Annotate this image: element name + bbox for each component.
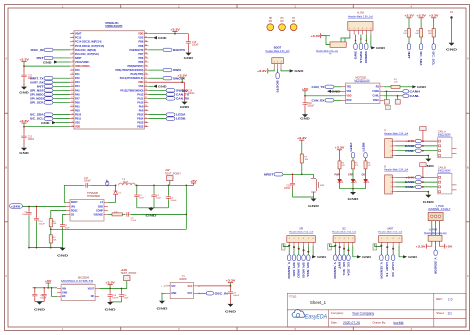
svg-text:SPI_SCK: SPI_SCK — [292, 262, 295, 277]
net flag UART_RX (UART) — [391, 246, 395, 277]
diode D1 — [108, 184, 122, 202]
ground (C9) — [225, 304, 237, 314]
net flag I2C_SDA — [419, 37, 423, 66]
svg-text:PC15-OSC32_OUT(PC15): PC15-OSC32_OUT(PC15) — [75, 45, 104, 48]
header SPI Header-Male 2.54_1x6 — [287, 227, 316, 246]
svg-text:43: 43 — [145, 53, 147, 55]
svg-text:GND: GND — [57, 253, 69, 257]
svg-text:3: 3 — [298, 238, 299, 240]
svg-text:GND: GND — [105, 308, 117, 312]
svg-text:18: 18 — [71, 101, 73, 103]
IC U2 STM32L451C8T6 — [70, 22, 148, 129]
LED D3 — [351, 169, 357, 189]
svg-text:TEST_POINT: TEST_POINT — [165, 173, 182, 175]
svg-text:GND: GND — [184, 56, 195, 60]
svg-text:VIN: VIN — [62, 288, 66, 290]
svg-text:270: 270 — [368, 165, 371, 167]
svg-text:CAN_B: CAN_B — [438, 167, 446, 170]
svg-text:VSENSE: VSENSE — [94, 214, 104, 216]
svg-text:V_SENSOR: V_SENSOR — [434, 258, 438, 275]
svg-text:100nF: 100nF — [84, 181, 91, 183]
ground (VSSA) — [43, 60, 70, 64]
svg-text:10uF: 10uF — [124, 298, 130, 300]
net flag OSC_IN (Y1 out) — [197, 291, 227, 295]
svg-text:C: C — [467, 274, 469, 278]
svg-text:10uF: 10uF — [65, 227, 71, 229]
svg-text:2: 2 — [354, 28, 355, 30]
svg-text:PB6: PB6 — [139, 57, 144, 60]
resistor R6 (split termination) — [395, 96, 400, 104]
junction (H_SW pins) — [355, 40, 356, 41]
svg-text:GND: GND — [423, 200, 435, 204]
svg-text:10uF: 10uF — [22, 214, 28, 216]
svg-text:37: 37 — [145, 77, 147, 79]
net flag SWCLK (H_SW) — [359, 35, 363, 64]
svg-text:+3.3V: +3.3V — [416, 14, 426, 18]
svg-text:1: 1 — [391, 192, 392, 194]
power +5V (rail) — [190, 179, 197, 185]
svg-text:RXD: RXD — [347, 100, 352, 102]
svg-text:GND: GND — [408, 255, 418, 259]
oscillator Y1 20MHz — [161, 276, 199, 299]
svg-text:1: 1 — [161, 286, 162, 288]
svg-text:23: 23 — [71, 121, 73, 123]
svg-text:NC: NC — [91, 296, 95, 298]
power +3.3V (VDD pin48) — [148, 27, 188, 34]
svg-text:100nF: 100nF — [112, 298, 119, 300]
svg-text:38: 38 — [145, 73, 147, 75]
svg-text:A: A — [467, 57, 469, 61]
svg-text:1: 1 — [274, 62, 275, 64]
svg-text:+3.3V: +3.3V — [416, 244, 426, 248]
net flag INT — [407, 37, 411, 59]
net flag LEDB (vertical) — [362, 142, 368, 161]
capacitor C8 10uF — [119, 289, 129, 302]
net flag UART_TX — [30, 76, 70, 80]
svg-text:CANL: CANL — [373, 95, 380, 98]
svg-text:4: 4 — [399, 238, 400, 240]
net flag CAN_RX — [312, 99, 342, 103]
svg-text:INT: INT — [407, 52, 411, 60]
svg-text:30: 30 — [145, 105, 147, 107]
ground (SPI) — [312, 246, 327, 259]
capacitor C4 2.2nF — [126, 212, 187, 222]
IC U1 TPS5405 — [66, 192, 108, 221]
connector pin1 post (I2C) — [328, 244, 332, 250]
svg-text:SWDIO: SWDIO — [364, 51, 368, 63]
net flag INT (I2C) — [338, 246, 342, 270]
svg-text:PB3(JTDO/TRACESWO): PB3(JTDO/TRACESWO) — [116, 69, 144, 72]
svg-text:VCC: VCC — [187, 286, 192, 288]
svg-text:1: 1 — [391, 155, 392, 157]
svg-text:PB2: PB2 — [75, 110, 80, 113]
svg-text:2.2nF: 2.2nF — [131, 220, 137, 222]
svg-text:5: 5 — [72, 49, 73, 51]
net flag OSC_IN — [31, 48, 71, 52]
svg-text:J_PWR: J_PWR — [436, 205, 444, 208]
svg-text:Date:: Date: — [331, 321, 338, 325]
svg-text:4: 4 — [348, 238, 349, 240]
svg-text:CAN_A: CAN_A — [438, 131, 446, 134]
svg-text:+3.3V: +3.3V — [19, 58, 29, 62]
svg-text:100nF: 100nF — [233, 295, 240, 297]
svg-text:28: 28 — [145, 113, 147, 115]
svg-text:GND: GND — [362, 255, 372, 259]
svg-text:PB4(NJTRST): PB4(NJTRST) — [127, 65, 143, 68]
wire (cap ground rail) — [137, 207, 169, 209]
mounting hole H6 M3 — [279, 18, 286, 30]
wire (feedback loop) — [51, 184, 187, 229]
svg-text:4: 4 — [362, 28, 363, 30]
svg-text:GND: GND — [98, 206, 103, 208]
ground (P1) — [446, 43, 458, 52]
svg-text:24: 24 — [71, 125, 73, 127]
wire (J_PWR to H_PWR) — [432, 221, 440, 236]
svg-text:GND: GND — [19, 151, 30, 155]
svg-text:+3.3V: +3.3V — [105, 281, 115, 285]
ground (H_SW pin6) — [371, 35, 386, 51]
svg-text:100nF: 100nF — [284, 188, 291, 190]
svg-text:+3.3V: +3.3V — [177, 74, 187, 78]
svg-text:+5V: +5V — [45, 279, 52, 283]
svg-text:SPI_SCK: SPI_SCK — [30, 101, 44, 105]
svg-text:100nF: 100nF — [40, 297, 47, 299]
svg-text:Sheet:: Sheet: — [436, 311, 444, 315]
svg-text:19: 19 — [71, 105, 73, 107]
svg-text:+3.3V: +3.3V — [19, 119, 29, 123]
svg-text:+3.3V: +3.3V — [257, 69, 267, 73]
svg-text:1: 1 — [381, 238, 382, 240]
resistor R8 10K — [403, 29, 410, 37]
net flag +24V — [10, 204, 67, 209]
header H_PWR Header-Male 2.54_1x3 — [424, 230, 447, 242]
svg-text:PB14: PB14 — [137, 118, 144, 121]
svg-text:6: 6 — [72, 53, 73, 55]
wire +5V rail — [135, 184, 193, 186]
svg-text:100nF: 100nF — [192, 44, 199, 46]
svg-text:UART_RX: UART_RX — [391, 262, 394, 277]
ground (VSS pin35) — [148, 84, 167, 88]
ground (LDO out caps) — [105, 302, 122, 312]
svg-text:2: 2 — [391, 151, 392, 153]
svg-text:I2C_SCL: I2C_SCL — [432, 52, 436, 67]
svg-text:100nF: 100nF — [308, 105, 315, 107]
connector CAN_A 94512-8040 — [438, 131, 457, 158]
svg-text:+3.3V: +3.3V — [429, 14, 439, 18]
svg-text:PA12: PA12 — [137, 93, 144, 96]
svg-text:PB15: PB15 — [137, 114, 144, 117]
svg-text:GND: GND — [417, 85, 427, 89]
svg-text:VOUT: VOUT — [88, 288, 95, 290]
svg-text:4: 4 — [391, 177, 392, 179]
test point TP2 +3.3V — [121, 269, 138, 289]
capacitor C17 100nF (bootstrap) — [64, 178, 115, 202]
capacitor C2 10uF — [134, 185, 144, 208]
svg-text:VDDA/VREF+: VDDA/VREF+ — [75, 65, 91, 68]
power +3.3V (NRST) — [297, 136, 307, 154]
svg-text:EN: EN — [62, 296, 66, 298]
net flag SWDIO (H_SW) — [364, 35, 368, 64]
svg-text:EasyEDA: EasyEDA — [305, 314, 327, 320]
net flag CANL (A) — [395, 149, 437, 153]
svg-text:270: 270 — [355, 165, 358, 167]
ground (C13) — [19, 78, 30, 94]
capacitor C6 100uF — [166, 185, 177, 208]
ground (C15) — [184, 45, 195, 60]
connector pin1 post (SPI) — [281, 244, 285, 250]
svg-text:PA3: PA3 — [75, 81, 80, 84]
svg-text:2: 2 — [293, 238, 294, 240]
net flag SPI_SCK — [30, 101, 70, 105]
header BOOT Header-Male 2.54_1x3 — [266, 45, 291, 68]
net flag I2C_SCL (I2C) — [342, 246, 346, 276]
net flag V_SENSOR (UART) — [379, 245, 383, 279]
net flag I2C_SDA — [30, 113, 70, 117]
svg-text:SPI_NSS: SPI_NSS — [306, 262, 309, 277]
ground (C14) — [180, 93, 191, 109]
power +5V (H_PWR) — [439, 241, 452, 248]
svg-text:44: 44 — [145, 49, 147, 51]
connector pin1 post (UART) — [373, 244, 377, 250]
svg-text:ROSC: ROSC — [71, 210, 78, 212]
net flag CAN_TX — [148, 92, 189, 96]
net flag LX — [105, 180, 109, 186]
EasyEDA logo — [292, 309, 327, 320]
net flag CAN_TX — [312, 85, 342, 89]
resistor R3 10K — [49, 235, 57, 248]
svg-text:PB5: PB5 — [139, 61, 144, 64]
svg-text:Company:: Company: — [331, 311, 344, 315]
svg-text:100uF: 100uF — [39, 224, 46, 226]
svg-text:GND: GND — [332, 90, 341, 94]
power +5V (U3) — [302, 87, 342, 97]
svg-text:PA2: PA2 — [75, 77, 80, 80]
net flag BOOT0 — [148, 48, 185, 52]
svg-text:CANH: CANH — [405, 144, 415, 148]
net flag V_SENSOR (SPI) — [287, 245, 291, 279]
svg-text:ST#: ST# — [171, 286, 176, 288]
net flag SPI_MISO (SPI) — [297, 246, 301, 278]
capacitor C20 (termination) — [385, 105, 390, 109]
svg-text:32: 32 — [145, 97, 147, 99]
svg-text:PB1: PB1 — [75, 105, 80, 108]
svg-text:47: 47 — [145, 36, 147, 38]
svg-text:VSS: VSS — [75, 122, 80, 125]
net flag CANH — [384, 90, 420, 94]
svg-text:2: 2 — [72, 36, 73, 38]
svg-text:B: B — [467, 166, 469, 170]
svg-text:3: 3 — [72, 40, 73, 42]
svg-text:I2C_SDA: I2C_SDA — [30, 113, 44, 117]
svg-text:270: 270 — [342, 165, 345, 167]
svg-text:GND: GND — [157, 307, 169, 311]
ground (VSS pin47) — [148, 36, 167, 40]
svg-text:PA13(JTMS/SWDIO): PA13(JTMS/SWDIO) — [120, 89, 143, 92]
capacitor C10 100uF — [34, 206, 45, 248]
resistor R10 10K — [428, 29, 435, 37]
title block — [287, 293, 466, 327]
svg-text:SPI: SPI — [299, 227, 303, 230]
power +24V (B) — [395, 175, 437, 179]
ground (B) — [423, 195, 435, 205]
svg-text:H_PWR: H_PWR — [429, 230, 438, 232]
junction — [23, 65, 25, 67]
svg-text:INT: INT — [37, 84, 44, 88]
svg-text:TEST_POINT: TEST_POINT — [121, 273, 138, 275]
resistor R6 270 — [364, 161, 371, 169]
svg-text:V_SENSOR: V_SENSOR — [333, 262, 336, 279]
net flag NRST — [264, 173, 303, 177]
resistor R4 270 — [338, 161, 345, 169]
svg-text:CANL: CANL — [405, 185, 414, 189]
svg-text:1: 1 — [289, 238, 290, 240]
svg-text:21: 21 — [71, 113, 73, 115]
svg-text:25: 25 — [145, 125, 147, 127]
net flag UART_RX — [30, 80, 70, 84]
ground (A) — [423, 159, 435, 169]
svg-text:PA4: PA4 — [75, 85, 80, 88]
svg-text:UART_RX: UART_RX — [30, 80, 44, 84]
mounting hole H8 M3 — [267, 18, 274, 30]
svg-text:+3.3V: +3.3V — [404, 14, 414, 18]
svg-text:BOOT0: BOOT0 — [173, 48, 185, 52]
svg-text:PA7: PA7 — [75, 97, 80, 100]
net flag SWO (H_SW) — [353, 35, 357, 60]
ground (LDO in caps) — [34, 302, 46, 312]
svg-text:NRST: NRST — [75, 57, 82, 60]
svg-text:PA1: PA1 — [75, 73, 80, 76]
svg-text:PA8: PA8 — [139, 110, 144, 113]
net flag SWCLK — [148, 76, 186, 80]
svg-text:RS: RS — [376, 87, 380, 89]
inductor L1 15uH — [119, 179, 135, 185]
svg-text:2: 2 — [277, 62, 278, 64]
svg-text:+3.3V: +3.3V — [121, 269, 128, 272]
svg-text:kor6ik: kor6ik — [394, 321, 404, 325]
svg-text:H_SW: H_SW — [357, 11, 365, 14]
svg-text:PB8: PB8 — [139, 45, 144, 48]
jumper (power link B) — [420, 163, 426, 178]
svg-text:GND: GND — [43, 60, 52, 64]
svg-text:+5V: +5V — [302, 87, 309, 91]
svg-text:PH3/BOOT0: PH3/BOOT0 — [129, 49, 143, 52]
svg-text:V_SENSOR: V_SENSOR — [287, 262, 290, 279]
svg-text:BOOT0: BOOT0 — [276, 81, 280, 94]
svg-text:8: 8 — [72, 61, 73, 63]
svg-text:PH0-OSC_IN(PH0): PH0-OSC_IN(PH0) — [75, 49, 96, 52]
capacitor C19 100nF — [284, 174, 295, 197]
svg-text:MIC5504: MIC5504 — [78, 277, 90, 280]
svg-text:100nF: 100nF — [188, 93, 195, 95]
svg-text:48: 48 — [145, 32, 147, 34]
jumper J_PWR JUMPER_1X3ALT — [428, 205, 451, 221]
net flag SPI_NSS — [30, 88, 70, 92]
svg-text:Sheet_1: Sheet_1 — [310, 300, 327, 305]
wire (LDO input rail) — [32, 287, 57, 296]
svg-text:PC13: PC13 — [75, 37, 82, 40]
svg-text:2020-07-26: 2020-07-26 — [343, 321, 360, 325]
svg-text:CANL: CANL — [410, 94, 420, 98]
svg-text:VBAT: VBAT — [75, 33, 82, 36]
svg-text:GND: GND — [376, 46, 386, 50]
svg-text:PA5: PA5 — [75, 89, 80, 92]
svg-text:PA0: PA0 — [75, 69, 80, 72]
svg-text:20: 20 — [71, 109, 73, 111]
svg-text:VREF: VREF — [373, 100, 380, 102]
svg-text:13: 13 — [71, 81, 73, 83]
jumper (power link A) — [420, 127, 426, 142]
svg-text:7: 7 — [72, 57, 73, 59]
svg-text:UART: UART — [387, 227, 394, 230]
svg-text:OSC_IN: OSC_IN — [215, 291, 228, 295]
svg-text:GND: GND — [62, 293, 67, 295]
capacitor C18 100nF — [302, 96, 314, 108]
svg-text:GND: GND — [317, 255, 327, 259]
svg-text:+24V: +24V — [406, 139, 415, 143]
net flag CAN_RX — [148, 97, 189, 101]
svg-text:20MHz: 20MHz — [179, 279, 187, 281]
net flag RST — [37, 56, 71, 60]
svg-text:GND: GND — [158, 36, 167, 40]
capacitor C14 100nF — [182, 82, 195, 95]
svg-text:TXD: TXD — [347, 87, 352, 89]
power +3.3V (Y1) — [197, 279, 235, 287]
svg-text:PB9: PB9 — [139, 41, 144, 44]
svg-text:2: 2 — [391, 187, 392, 189]
svg-text:5: 5 — [308, 238, 309, 240]
svg-text:6: 6 — [370, 28, 371, 30]
net flag SWO — [148, 68, 182, 72]
resistor R9 10K — [415, 29, 422, 37]
svg-text:SWCLK: SWCLK — [359, 51, 363, 63]
svg-text:PB12: PB12 — [137, 126, 144, 129]
svg-text:100nF: 100nF — [28, 139, 35, 141]
svg-text:CANH: CANH — [372, 90, 379, 93]
svg-text:SPI_NSS: SPI_NSS — [30, 88, 44, 92]
svg-text:GND: GND — [180, 105, 191, 109]
svg-text:OUT: OUT — [187, 293, 192, 295]
power +3.3V (BOOT pin1) — [257, 68, 274, 73]
svg-text:SPI_MOSI: SPI_MOSI — [30, 97, 44, 101]
svg-text:+3.3V: +3.3V — [226, 279, 236, 283]
resistor R12 47K (comp) — [108, 212, 125, 216]
switch SW1 — [302, 174, 325, 197]
svg-text:UART_TX: UART_TX — [385, 262, 388, 277]
svg-text:TPS5405DR: TPS5405DR — [87, 195, 100, 198]
svg-text:+5V: +5V — [165, 169, 170, 172]
resistor R2 10K — [49, 210, 66, 234]
svg-text:BOOT: BOOT — [71, 202, 78, 204]
svg-text:SS: SS — [71, 214, 75, 216]
svg-text:UART_TX: UART_TX — [30, 76, 44, 80]
net flag SPI_MISO — [30, 92, 70, 96]
svg-text:V_SENSOR: V_SENSOR — [379, 262, 382, 279]
net flag CANH (B) — [395, 180, 437, 184]
svg-text:GND: GND — [34, 307, 46, 311]
svg-text:PB7: PB7 — [139, 53, 144, 56]
svg-text:+3.3V: +3.3V — [311, 34, 321, 38]
svg-text:LX: LX — [105, 180, 108, 183]
ground (SW1) — [308, 198, 320, 207]
svg-text:41: 41 — [145, 61, 147, 63]
svg-text:Drawn By:: Drawn By: — [373, 321, 387, 325]
svg-text:1/1: 1/1 — [448, 312, 453, 316]
svg-text:40: 40 — [145, 65, 147, 67]
svg-text:PB13: PB13 — [137, 122, 144, 125]
svg-text:Your Company: Your Company — [352, 312, 374, 316]
power +3.3V (R10) — [429, 14, 439, 29]
svg-text:I2C_SCL: I2C_SCL — [342, 262, 345, 276]
